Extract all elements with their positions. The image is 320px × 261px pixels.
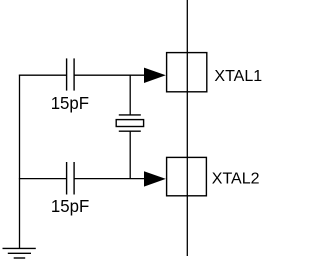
svg-text:XTAL1: XTAL1 [214, 68, 262, 85]
arrow into XTAL1 [144, 68, 166, 83]
pin box XTAL1 [167, 53, 207, 92]
wire: crystal top lead [129, 75, 131, 115]
svg-text:15pF: 15pF [51, 195, 89, 216]
svg-text:15pF: 15pF [51, 92, 89, 113]
pin box XTAL2 [167, 157, 207, 195]
wire: top net, capacitor C1 right plate to XTAL1 arrow [74, 74, 146, 76]
wire: bottom net, capacitor C2 right plate to XTAL2 arrow [74, 178, 146, 180]
capacitor C2 (bottom 15pF) [67, 162, 75, 195]
IC edge (microcontroller body line) [186, 0, 188, 256]
wire: bottom net, left rail to capacitor C2 left plate [19, 178, 67, 180]
capacitor C1 (top 15pF) [67, 58, 75, 90]
ground [3, 248, 36, 258]
wire: top net, left corner to capacitor C1 left plate [19, 74, 67, 76]
wire: crystal bottom lead [129, 131, 131, 178]
wire: left ground rail [19, 75, 21, 249]
crystal Y1 [116, 115, 143, 131]
arrow into XTAL2 [144, 171, 166, 186]
svg-text:XTAL2: XTAL2 [212, 171, 260, 188]
